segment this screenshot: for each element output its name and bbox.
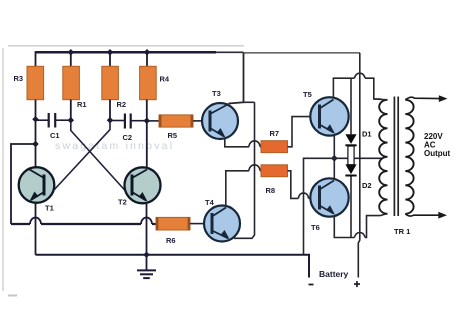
- node left feedback tap: [32, 141, 39, 148]
- wire left feedback to lower rail: [11, 144, 36, 224]
- transistor T6: [310, 178, 348, 216]
- resistor R5: [159, 115, 193, 127]
- wire top rail: [36, 51, 361, 54]
- label R8: [266, 186, 276, 195]
- node rail junction R4: [144, 49, 151, 56]
- svg-text:R7: R7: [270, 129, 280, 138]
- svg-text:R1: R1: [77, 100, 87, 109]
- node ground junction: [143, 252, 150, 259]
- label R6: [166, 236, 176, 245]
- wire lower feedback rail with hops: [11, 218, 156, 224]
- wire R8 to T6 base with hop: [288, 171, 311, 199]
- diode chain vertical wire: [348, 78, 354, 237]
- wire secondary top lead with output arrow: [405, 95, 447, 102]
- label R7: [270, 129, 280, 138]
- faint left border line: [2, 48, 4, 291]
- label D2: [362, 181, 372, 190]
- watermark swagatam innoval: [55, 140, 174, 152]
- svg-text:C1: C1: [50, 131, 60, 140]
- battery plus sign: [354, 281, 360, 287]
- transformer TR1 secondary winding: [405, 100, 413, 214]
- wire C1 right lead: [56, 119, 71, 121]
- wire T3 emitter to R7 with hop: [225, 138, 261, 147]
- transistor T2: [125, 167, 161, 203]
- node rail junction R1: [68, 49, 75, 56]
- label Battery: [319, 269, 349, 279]
- node C2-R4 junction: [144, 118, 151, 125]
- svg-text:T1: T1: [45, 204, 54, 213]
- wire R4 top stub: [146, 52, 148, 66]
- wire R6 to T4 base: [190, 223, 205, 225]
- wire ground line: [36, 255, 310, 278]
- wire secondary bottom lead with output arrow: [405, 212, 447, 219]
- label T3: [212, 89, 221, 98]
- svg-text:R4: R4: [160, 75, 170, 84]
- wire R1 bottom stub: [70, 100, 72, 122]
- wire R7 to T5 base: [288, 117, 311, 147]
- svg-text:C2: C2: [123, 133, 133, 142]
- label D1: [362, 130, 372, 139]
- wire T1 emitter down through hop to ground line: [35, 203, 37, 255]
- wire midpoint down to battery minus: [304, 158, 335, 255]
- wire R2 top stub: [109, 52, 111, 66]
- label T2: [118, 198, 127, 207]
- diode D1: [345, 134, 356, 146]
- svg-text:TR 1: TR 1: [394, 227, 410, 236]
- node R1-C1 junction: [68, 117, 75, 124]
- battery minus sign: [309, 284, 314, 286]
- wire C2 right lead: [131, 120, 146, 122]
- svg-text:R5: R5: [168, 131, 178, 140]
- wire R3 top stub: [35, 51, 37, 66]
- wire T3 collector to top rail tee: [229, 53, 255, 104]
- capacitor C1: [49, 113, 56, 128]
- label T5: [303, 90, 312, 99]
- label TR 1: [394, 227, 410, 236]
- label T4: [205, 198, 215, 207]
- label R4: [160, 75, 170, 84]
- transistor T4: [204, 206, 240, 242]
- wire midpoint to transformer center tap: [334, 157, 383, 159]
- node rail junction R2: [107, 49, 114, 56]
- svg-text:Battery: Battery: [319, 269, 349, 279]
- svg-text:D1: D1: [362, 130, 372, 139]
- diode D2: [345, 164, 356, 176]
- svg-text:R2: R2: [117, 100, 127, 109]
- transistor T1: [19, 167, 55, 203]
- wire C2 left lead: [110, 120, 124, 122]
- resistor R4: [140, 66, 157, 99]
- svg-text:T6: T6: [311, 223, 320, 232]
- svg-text:T5: T5: [303, 90, 312, 99]
- node C1 tap on R3 wire: [32, 116, 39, 123]
- wire battery plus from top rail: [358, 53, 360, 278]
- faint top border line: [8, 45, 244, 47]
- label R1: [77, 100, 87, 109]
- label R5: [168, 131, 178, 140]
- wire T6 emitter to transformer primary bottom with hop: [334, 214, 387, 238]
- svg-text:T2: T2: [118, 198, 127, 207]
- resistor R7: [261, 141, 288, 153]
- wire T5 emitter to T6 collector: [333, 134, 335, 180]
- wire cross-coupling R2 to T1 base: [54, 120, 111, 190]
- wire R4 bottom to T2 collector: [146, 100, 148, 170]
- wire C2 junction to R5: [147, 120, 159, 122]
- svg-text:R3: R3: [14, 74, 24, 83]
- capacitor C2: [125, 114, 131, 129]
- svg-text:T4: T4: [205, 198, 215, 207]
- transformer core: [394, 97, 398, 217]
- svg-text:R8: R8: [266, 186, 276, 195]
- label 220V AC Output: [424, 132, 451, 158]
- svg-text:R6: R6: [166, 236, 176, 245]
- transformer TR1 primary winding: [374, 99, 388, 214]
- node R2-C2 junction: [107, 117, 114, 124]
- resistor R3: [27, 66, 44, 99]
- transistor T3: [202, 103, 238, 139]
- label C2: [123, 133, 133, 142]
- transistor T5: [310, 97, 348, 135]
- svg-text:D2: D2: [362, 181, 372, 190]
- faint bottom-left mark: [8, 295, 17, 297]
- wire C1 left lead: [36, 119, 49, 121]
- label R3: [14, 74, 24, 83]
- wire tee down to T4 emitter: [234, 102, 255, 238]
- svg-text:Output: Output: [424, 149, 451, 158]
- wire R5 to T3 base: [193, 120, 203, 122]
- svg-text:swagatam innoval: swagatam innoval: [55, 140, 174, 152]
- label C1: [50, 131, 60, 140]
- resistor R2: [102, 66, 119, 99]
- wire T5 collector up and right to transformer primary top with hop: [333, 73, 381, 99]
- resistor R6: [156, 217, 190, 230]
- resistor R1: [63, 66, 80, 99]
- node T5-T6 midpoint: [331, 155, 338, 162]
- label T1: [45, 204, 54, 213]
- wire cross-coupling R1 to T2 base: [71, 120, 126, 191]
- wire R1 top stub: [70, 52, 72, 66]
- wire R3 bottom to T1 collector: [35, 100, 37, 169]
- label R2: [117, 100, 127, 109]
- wire R2 bottom stub: [109, 100, 111, 122]
- wire T2 emitter down through hop to ground line: [146, 203, 148, 255]
- svg-text:T3: T3: [212, 89, 221, 98]
- label T6: [311, 223, 320, 232]
- wire T4 collector to R8 with hop: [226, 165, 261, 207]
- ground: [137, 255, 156, 278]
- resistor R8: [261, 165, 288, 177]
